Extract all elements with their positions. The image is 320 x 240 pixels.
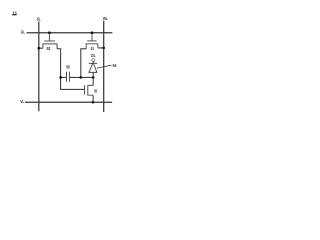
capacitor 56 wire left xyxy=(61,76,67,78)
transistor 52 gate plate xyxy=(44,40,55,42)
svg-text:SL: SL xyxy=(37,17,41,23)
svg-text:54: 54 xyxy=(113,63,117,68)
svg-text:51: 51 xyxy=(91,46,95,51)
capacitor 56 right plate xyxy=(68,72,70,82)
wire WL vertical bus line xyxy=(103,21,105,112)
junction dot node C xyxy=(92,76,95,79)
OLED 54 terminal circle OL xyxy=(92,59,95,62)
wire 51 drain lead to WL xyxy=(98,47,104,49)
wire storage node from node A to gate of 55 xyxy=(61,77,85,89)
svg-text:OL: OL xyxy=(91,53,96,58)
svg-text:55: 55 xyxy=(94,88,97,93)
OLED 54 triangle xyxy=(89,63,97,73)
wire 55 top terminal to node C xyxy=(92,77,94,85)
svg-text:GL: GL xyxy=(21,30,25,36)
svg-text:WL: WL xyxy=(103,16,108,22)
junction dot 52 source on SL xyxy=(38,47,41,50)
transistor 51 channel xyxy=(86,44,98,49)
label 11 underline xyxy=(12,14,17,16)
svg-text:1: 1 xyxy=(15,10,18,16)
transistor 55 channel xyxy=(88,85,93,95)
transistor 51 gate plate xyxy=(87,40,96,42)
junction dot node B xyxy=(80,76,83,79)
wire SL vertical bus line xyxy=(38,22,40,112)
junction dot node A xyxy=(59,76,62,79)
transistor 52 channel xyxy=(43,44,57,49)
wire 52 drain lead xyxy=(57,49,61,78)
wire 52 source lead to SL xyxy=(39,47,43,49)
transistor 52 gate stub xyxy=(48,33,50,41)
transistor 55 gate plate xyxy=(84,85,86,95)
OLED 54 cathode bar xyxy=(89,62,97,64)
capacitor 56 wire right xyxy=(69,76,93,78)
capacitor 56 left plate xyxy=(66,72,68,82)
wire VL horizontal bus line xyxy=(25,101,112,103)
svg-text:VL: VL xyxy=(20,99,24,105)
junction dot 51 gate on GL xyxy=(91,31,94,34)
OLED 54 anode stub below triangle xyxy=(92,72,94,77)
svg-text:56: 56 xyxy=(66,65,70,70)
wire 55 bottom terminal to VL xyxy=(92,95,94,102)
leader line for label 54 xyxy=(97,65,112,68)
wire 51 source lead down to node B xyxy=(81,49,86,78)
wire GL horizontal bus line xyxy=(27,32,113,34)
junction dot 51 drain on WL xyxy=(102,47,105,50)
transistor 51 gate stub xyxy=(91,33,93,41)
OLED 54 terminal stub to circle xyxy=(92,61,94,63)
svg-text:52: 52 xyxy=(47,46,51,51)
junction dot 52 gate on GL xyxy=(48,31,51,34)
junction dot 55 drain on VL xyxy=(92,101,95,104)
